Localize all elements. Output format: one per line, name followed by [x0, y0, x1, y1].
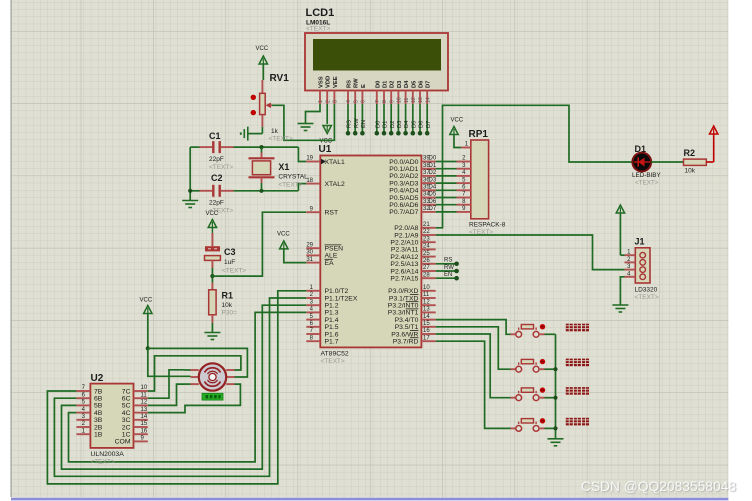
U2 pin 3 3B — [76, 414, 102, 424]
svg-text:AT89C52: AT89C52 — [321, 351, 349, 358]
svg-text:D3: D3 — [397, 80, 403, 88]
svg-text:RESPACK-8: RESPACK-8 — [469, 222, 506, 229]
wire to ground — [189, 191, 191, 201]
svg-text:19: 19 — [306, 156, 313, 162]
U1 pin 34 P0.5/AD5 — [389, 192, 437, 202]
svg-text:RS: RS — [347, 120, 353, 128]
svg-text:D5: D5 — [411, 80, 417, 88]
svg-text:LED-BIBY: LED-BIBY — [632, 172, 661, 179]
svg-text:E: E — [361, 84, 367, 88]
svg-text:21: 21 — [423, 222, 430, 228]
svg-text:PSEN: PSEN — [325, 246, 344, 253]
svg-text:17: 17 — [423, 335, 430, 341]
svg-text:26: 26 — [423, 258, 430, 264]
svg-text:P3.2/INT0: P3.2/INT0 — [388, 303, 419, 310]
power VCC (RV1) — [256, 46, 269, 80]
label button 2 (增加键) — [566, 359, 589, 367]
wire D1 terminal — [383, 104, 389, 133]
svg-text:J1: J1 — [635, 237, 645, 247]
capacitor C3 — [205, 233, 247, 276]
wire RV1 bottom — [248, 115, 263, 134]
svg-text:P3.5/T1: P3.5/T1 — [395, 324, 419, 331]
svg-text:EN: EN — [444, 272, 452, 278]
svg-text:C3: C3 — [224, 247, 236, 257]
svg-text:P3.1/TXD: P3.1/TXD — [389, 295, 419, 302]
driver U2 body — [90, 384, 133, 448]
svg-text:XTAL1: XTAL1 — [325, 159, 345, 166]
node C3/R1 junction — [210, 274, 214, 278]
power VCC (LCD VDD) — [320, 126, 333, 145]
svg-text:VCC: VCC — [140, 298, 153, 304]
wire button 1 right — [545, 333, 556, 335]
respack RP1 labels — [469, 129, 506, 236]
U1 pin 28 P2.7/A15 — [390, 272, 435, 282]
respack RP1 body — [471, 140, 489, 219]
LCD LCD1 labels — [306, 7, 335, 33]
svg-text:D5: D5 — [411, 121, 417, 128]
wire RW terminal — [354, 104, 360, 133]
ground (buttons) — [548, 439, 564, 446]
watermark — [581, 479, 736, 494]
svg-text:7B: 7B — [94, 388, 103, 395]
svg-text:ALE: ALE — [325, 253, 338, 260]
node D2 — [389, 131, 394, 136]
power VCC (RP1) — [450, 118, 464, 148]
U1 pin 18 XTAL2 — [306, 178, 345, 188]
node D7 — [425, 131, 430, 136]
svg-text:4B: 4B — [94, 410, 103, 417]
svg-text:22: 22 — [423, 229, 430, 235]
push-button 1 — [511, 324, 546, 337]
U1 pin 9 RST — [306, 206, 338, 216]
svg-text:P1.5: P1.5 — [325, 324, 339, 331]
wire D4 terminal — [404, 104, 410, 133]
svg-text:CRYSTAL: CRYSTAL — [278, 174, 308, 181]
svg-text:22pF: 22pF — [209, 200, 224, 207]
U1 pin 6 P1.5 — [306, 321, 338, 331]
svg-text:D6: D6 — [419, 121, 425, 128]
wire P3.7 to button 4 — [436, 341, 511, 428]
svg-text:ULN2003A: ULN2003A — [91, 451, 125, 458]
node motor VCC junction — [146, 346, 150, 350]
wire RS (P2.5) — [436, 258, 457, 264]
label button 3 (减小键) — [566, 387, 589, 395]
U1 pin 33 P0.6/AD6 — [389, 199, 437, 209]
connector J1 body — [635, 248, 650, 283]
U1 pin 21 P2.0/A8 — [394, 222, 435, 232]
svg-text:12: 12 — [141, 400, 148, 406]
LCD pin 3 VEE — [333, 76, 339, 104]
svg-text:2C: 2C — [122, 424, 131, 431]
svg-text:VDD: VDD — [326, 76, 332, 88]
U2 pin 13 4C — [122, 407, 148, 417]
svg-text:RW: RW — [444, 265, 454, 271]
J1 pin 4 — [625, 271, 646, 279]
svg-text:P0.0/AD0: P0.0/AD0 — [389, 159, 418, 166]
svg-text:D2: D2 — [390, 81, 396, 88]
wire RW (P2.6) — [436, 265, 457, 271]
U1 pin 35 P0.4/AD4 — [389, 185, 437, 195]
svg-text:<TEXT>: <TEXT> — [278, 182, 302, 189]
LED D1 — [632, 144, 661, 187]
capacitor C1 — [190, 131, 233, 171]
J1 pin 1 — [625, 250, 646, 258]
svg-text:P1.4: P1.4 — [325, 317, 339, 324]
node D0 — [375, 131, 380, 136]
node RW — [353, 131, 358, 136]
U1 pin 23 P2.2/A10 — [390, 236, 435, 246]
svg-text:D3: D3 — [397, 121, 403, 128]
wire P3.6 to button 3 — [436, 334, 511, 398]
svg-text:COM: COM — [115, 439, 131, 446]
svg-text:1: 1 — [318, 100, 324, 103]
wire J1 pin1 vcc — [620, 254, 624, 256]
U2 pin 9 COM — [115, 436, 148, 446]
U1 pin 4 P1.3 — [306, 307, 338, 317]
U1 pin 25 P2.4/A12 — [390, 251, 435, 261]
svg-text:P0.4/AD4: P0.4/AD4 — [389, 188, 418, 195]
svg-text:VSS: VSS — [319, 76, 325, 88]
svg-text:16: 16 — [141, 428, 148, 434]
svg-text:RS: RS — [347, 80, 353, 88]
svg-text:P3.6/WR: P3.6/WR — [391, 331, 418, 338]
svg-text:12: 12 — [423, 299, 430, 305]
push-button 3 — [511, 387, 546, 400]
svg-text:P1.6: P1.6 — [325, 331, 339, 338]
U1 pin 10 P3.0/RXD — [388, 285, 436, 295]
svg-text:VEE: VEE — [333, 76, 339, 88]
power VCC (EA) — [277, 232, 306, 263]
svg-text:P0.7/AD7: P0.7/AD7 — [389, 209, 418, 216]
U1 pin 1 P1.0/T2 — [306, 285, 348, 295]
wire button 4 right — [545, 427, 556, 429]
svg-text:D4: D4 — [429, 185, 437, 191]
U1 pin 24 P2.3/A11 — [391, 244, 436, 254]
node D5 — [411, 131, 416, 136]
wire P3.4 to button 1 — [436, 320, 511, 335]
wire button 2 right — [545, 368, 556, 370]
svg-text:P2.2/A10: P2.2/A10 — [390, 240, 418, 247]
svg-text:3C: 3C — [122, 417, 131, 424]
svg-text:15: 15 — [423, 321, 430, 327]
U2 pin 10 7C — [122, 385, 148, 395]
svg-text:D6: D6 — [429, 199, 437, 205]
U1 XTAL1 arrow — [321, 159, 326, 165]
wire D2 bus — [436, 175, 457, 177]
svg-text:U2: U2 — [91, 373, 104, 384]
svg-text:VCC: VCC — [206, 211, 219, 217]
U2 pin 12 5C — [122, 400, 148, 410]
svg-text:P30=: P30= — [222, 310, 238, 317]
svg-text:P0.1/AD1: P0.1/AD1 — [389, 166, 418, 173]
svg-text:RV1: RV1 — [270, 73, 290, 84]
driver U2 labels — [91, 373, 125, 466]
LCD pin 7 D0 — [375, 81, 381, 104]
node D1 — [382, 131, 387, 136]
svg-text:15: 15 — [141, 421, 148, 427]
svg-text:XTAL2: XTAL2 — [325, 181, 345, 188]
node EN terminal — [454, 276, 459, 281]
svg-text:5C: 5C — [122, 403, 131, 410]
wire D0 terminal — [375, 104, 381, 133]
svg-text:RP1: RP1 — [469, 129, 489, 140]
svg-text:4C: 4C — [122, 410, 131, 417]
svg-text:7C: 7C — [122, 388, 131, 395]
svg-text:<TEXT>: <TEXT> — [269, 136, 293, 143]
wire button 3 right — [545, 397, 556, 399]
wire VCC to motor right common — [148, 348, 248, 377]
U1 pin 7 P1.6 — [306, 328, 338, 338]
svg-text:22pF: 22pF — [209, 156, 224, 163]
wire P2.0 to LED — [436, 105, 632, 228]
wire RS terminal — [347, 104, 353, 133]
svg-text:EN: EN — [361, 120, 367, 128]
wire D3 bus — [436, 182, 457, 184]
wire P2.1 to J1 pin3 — [436, 235, 625, 270]
U2 pin 14 3C — [122, 414, 148, 424]
svg-text:12: 12 — [411, 97, 417, 103]
U1 pin 2 P1.1/T2EX — [306, 292, 358, 302]
motor state display — [202, 393, 223, 400]
U1 pin 38 P0.1/AD1 — [389, 163, 437, 173]
svg-text:10: 10 — [423, 285, 430, 291]
svg-text:2B: 2B — [94, 424, 103, 431]
U1 pin 16 P3.6/WR — [391, 328, 436, 338]
resistor R1 — [209, 276, 237, 332]
ground (RV1, rotated) — [241, 127, 248, 141]
U1 pin 15 P3.5/T1 — [395, 321, 436, 331]
potentiometer RV1 — [251, 73, 293, 143]
wire D4 bus — [436, 189, 457, 191]
LCD pin 14 D7 — [425, 81, 431, 104]
svg-text:P3.0/RXD: P3.0/RXD — [388, 288, 418, 295]
svg-text:P0.6/AD6: P0.6/AD6 — [389, 202, 418, 209]
wire U2 5C to motor — [148, 384, 185, 405]
svg-text:27: 27 — [423, 265, 430, 271]
wire VEE to RV1 wiper — [272, 104, 334, 140]
svg-text:P1.2: P1.2 — [325, 303, 339, 310]
svg-text:P2.3/A11: P2.3/A11 — [391, 247, 419, 254]
svg-text:EA: EA — [325, 260, 335, 267]
svg-text:RST: RST — [325, 210, 339, 217]
wire VDD to power — [326, 104, 328, 124]
U1 pin 5 P1.4 — [306, 314, 338, 324]
wire LED to R2 — [651, 161, 683, 163]
svg-text:10: 10 — [141, 385, 148, 391]
node D3 — [396, 131, 401, 136]
svg-text:P2.6/A14: P2.6/A14 — [390, 268, 418, 275]
svg-text:D7: D7 — [429, 206, 437, 212]
svg-text:P2.1/A9: P2.1/A9 — [394, 232, 418, 239]
LCD pin 2 VDD — [325, 76, 331, 104]
LCD pin 8 D1 — [382, 80, 388, 104]
wire P1.1 to U2 6B — [54, 298, 306, 476]
wire U2 4C to motor — [148, 384, 241, 413]
node EN — [360, 131, 365, 136]
svg-text:P0.2/AD2: P0.2/AD2 — [389, 173, 418, 180]
U1 pin 39 P0.0/AD0 — [389, 156, 437, 166]
LCD pin 1 VSS — [318, 76, 324, 104]
svg-text:8: 8 — [382, 100, 388, 103]
svg-text:10k: 10k — [222, 302, 233, 309]
wire P1.0 to U2 7B — [47, 291, 306, 484]
svg-text:10: 10 — [397, 97, 403, 103]
RP1 pin 7 — [457, 192, 471, 198]
svg-text:P0.3/AD3: P0.3/AD3 — [389, 180, 418, 187]
wire C2 to XTAL2 — [234, 184, 307, 191]
svg-text:D3: D3 — [429, 177, 437, 183]
U2 pin 11 6C — [122, 392, 148, 402]
svg-text:VCC: VCC — [277, 232, 290, 238]
wire VCC to motor left common — [148, 348, 191, 376]
wire D5 bus — [436, 197, 457, 199]
svg-text:P3.3/INT1: P3.3/INT1 — [388, 310, 419, 317]
svg-text:<TEXT>: <TEXT> — [91, 459, 115, 466]
U2 pin 15 2C — [122, 421, 148, 431]
svg-text:D2: D2 — [429, 170, 437, 176]
wire P3.5 to button 2 — [436, 327, 511, 369]
svg-text:<TEXT>: <TEXT> — [209, 164, 233, 171]
svg-text:D5: D5 — [429, 192, 437, 198]
svg-text:C2: C2 — [211, 173, 223, 183]
node D6 — [418, 131, 423, 136]
U2 pin 16 1C — [122, 428, 148, 438]
label button 1 (功能键) — [566, 324, 589, 332]
wire D2 terminal — [390, 104, 396, 133]
svg-text:LCD1: LCD1 — [306, 7, 335, 19]
svg-text:1uF: 1uF — [224, 259, 235, 266]
svg-text:D7: D7 — [426, 81, 432, 88]
wire D6 bus — [436, 204, 457, 206]
U2 pin 7 7B — [76, 385, 102, 395]
svg-text:<TEXT>: <TEXT> — [321, 358, 345, 365]
svg-text:P1.7: P1.7 — [325, 339, 339, 346]
RP1 pin 2 — [457, 156, 471, 162]
svg-text:5: 5 — [353, 100, 359, 103]
svg-text:D1: D1 — [383, 121, 389, 128]
svg-text:X1: X1 — [278, 162, 289, 172]
node C2 left junction — [188, 189, 192, 193]
capacitor C2 — [190, 173, 233, 215]
svg-text:RW: RW — [354, 78, 360, 88]
U1 pin 26 P2.5/A13 — [390, 258, 435, 268]
RP1 pin 4 — [457, 170, 471, 176]
svg-text:31: 31 — [306, 257, 313, 263]
wire D1 bus — [436, 168, 457, 170]
node C2/X1 junction — [259, 189, 263, 193]
svg-text:3: 3 — [333, 100, 339, 103]
svg-text:6B: 6B — [94, 396, 103, 403]
J1 pin 3 — [625, 264, 646, 272]
svg-text:D4: D4 — [404, 120, 410, 128]
svg-text:6C: 6C — [122, 396, 131, 403]
svg-text:3B: 3B — [94, 417, 103, 424]
svg-text:11: 11 — [141, 392, 148, 398]
U1 pin 13 P3.3/INT1 — [388, 307, 436, 317]
wire D6 terminal — [419, 104, 425, 133]
svg-text:P2.0/A8: P2.0/A8 — [394, 225, 418, 232]
wire VSS to ground — [306, 104, 321, 124]
wire RST — [212, 212, 306, 276]
push-button 4 — [511, 418, 546, 431]
svg-text:2: 2 — [325, 100, 331, 103]
U1 pin 11 P3.1/TXD — [389, 292, 436, 302]
svg-text:D1: D1 — [429, 163, 437, 169]
svg-text:RS: RS — [444, 258, 452, 264]
U2 pin 4 4B — [76, 407, 102, 417]
svg-text:D0: D0 — [375, 81, 381, 88]
svg-text:D4: D4 — [404, 80, 410, 88]
svg-text:D0: D0 — [375, 121, 381, 128]
svg-text:D1: D1 — [383, 80, 389, 88]
svg-text:P3.7/RD: P3.7/RD — [393, 339, 419, 346]
wire button bus — [555, 334, 557, 439]
svg-text:5B: 5B — [94, 403, 103, 410]
connector J1 labels — [635, 237, 659, 302]
wire C1-C2 left — [189, 147, 191, 191]
svg-text:13: 13 — [423, 307, 430, 313]
LCD pin 6 E — [361, 84, 367, 104]
LCD LCD1 body — [305, 33, 448, 91]
LCD pin 10 D3 — [397, 80, 403, 104]
push-button 2 — [511, 359, 546, 372]
svg-text:U1: U1 — [319, 144, 332, 155]
wire D3 terminal — [397, 104, 403, 133]
LCD pin 9 D2 — [389, 81, 395, 104]
U1 pin 3 P1.2 — [306, 299, 338, 309]
sheet bottom border — [11, 498, 728, 501]
svg-text:VCC: VCC — [256, 46, 269, 52]
RP1 pin 8 — [457, 199, 471, 205]
microcontroller U1 labels — [319, 144, 349, 365]
wire J1 pin4 gnd — [620, 277, 624, 305]
wire C1 to XTAL1 — [234, 147, 307, 161]
power VCC (J1) — [616, 205, 624, 255]
svg-text:<TEXT>: <TEXT> — [306, 26, 330, 33]
wire D0 bus — [436, 161, 457, 163]
wire R2 to power — [706, 134, 713, 162]
svg-text:10k: 10k — [685, 168, 696, 175]
wire U2 6C to motor — [148, 370, 185, 398]
LCD pin 12 D5 — [411, 80, 417, 104]
svg-text:P2.4/A12: P2.4/A12 — [390, 254, 418, 261]
LCD pin 4 RS — [346, 80, 352, 104]
svg-text:P1.3: P1.3 — [325, 310, 339, 317]
U1 pin 30 ALE — [306, 250, 338, 260]
node button bus — [553, 396, 557, 400]
microcontroller U1 body — [320, 156, 421, 348]
svg-text:28: 28 — [423, 272, 430, 278]
svg-text:25: 25 — [423, 251, 430, 257]
svg-text:4: 4 — [346, 100, 352, 103]
ground (LCD VSS) — [298, 124, 314, 131]
node RW terminal — [454, 269, 459, 274]
svg-text:1B: 1B — [94, 432, 103, 439]
ground (J1) — [612, 305, 628, 312]
svg-text:14: 14 — [425, 97, 431, 103]
ground (C1/C2) — [182, 201, 198, 208]
U1 pin 31 EA — [306, 257, 334, 267]
svg-text:P2.5/A13: P2.5/A13 — [390, 261, 418, 268]
RP1 pin 6 — [457, 185, 471, 191]
ground (R1) — [204, 333, 220, 340]
RP1 pin 3 — [457, 163, 471, 169]
U1 pin 17 P3.7/RD — [393, 335, 436, 345]
U2 pin 5 5B — [76, 400, 102, 410]
svg-text:RW: RW — [354, 118, 360, 128]
U1 pin 32 P0.7/AD7 — [389, 206, 437, 216]
svg-text:18: 18 — [306, 178, 313, 184]
